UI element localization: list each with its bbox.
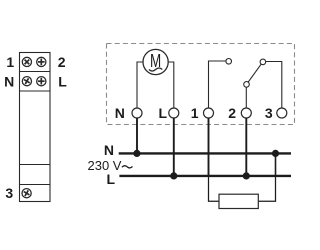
enclosure dashed box — [107, 44, 295, 125]
svg-text:L: L — [106, 171, 115, 187]
terminal N — [132, 108, 142, 118]
switch S2 lower contact — [244, 82, 250, 88]
wire N bus to load (lower) — [258, 176, 275, 201]
switch S1 wire from terminal 1 — [209, 61, 226, 108]
switch S2 wire from terminal 2 — [245, 87, 247, 108]
motor M1 — [143, 49, 168, 74]
wire terminal 1 to load (lower) — [209, 176, 220, 201]
motor wave symbol — [149, 68, 162, 71]
terminal L — [169, 108, 179, 118]
screw terminal L — [37, 77, 46, 86]
terminal 2 — [241, 108, 251, 118]
junction N bus / terminal N — [133, 150, 140, 157]
load resistor — [219, 194, 258, 208]
svg-text:3: 3 — [5, 185, 13, 201]
svg-text:L: L — [158, 105, 167, 121]
svg-text:L: L — [58, 73, 67, 89]
svg-text:N: N — [4, 73, 14, 89]
screw terminal 3 — [22, 189, 31, 198]
terminal block X1 housing — [20, 53, 51, 202]
screw terminal N — [22, 77, 31, 86]
junction N bus / load wire — [272, 150, 279, 157]
switch S2 upper contact — [260, 59, 266, 65]
wire terminal 1 to load (upper) — [208, 118, 210, 177]
screw terminal 2 — [37, 57, 46, 66]
wire N bus to load (upper) — [275, 153, 277, 177]
terminal 3 — [277, 108, 287, 118]
wire motor to terminal L — [168, 62, 174, 108]
switch S1 contact — [226, 59, 232, 65]
svg-text:3: 3 — [265, 105, 273, 121]
wire motor to terminal N — [137, 62, 143, 108]
svg-text:2: 2 — [228, 105, 236, 121]
wire contact to terminal 3 — [266, 62, 282, 109]
svg-text:2: 2 — [58, 54, 66, 70]
svg-text:1: 1 — [6, 54, 14, 70]
wire terminal L to L bus — [173, 118, 175, 176]
svg-text:230 V: 230 V — [88, 158, 122, 173]
svg-text:N: N — [115, 105, 125, 121]
screw terminal 1 — [22, 57, 31, 66]
switch S2 blade — [248, 64, 261, 82]
junction L bus / terminal 2 — [243, 172, 250, 179]
net L bus — [119, 175, 291, 177]
junction L bus / terminal L — [170, 172, 177, 179]
net N bus — [119, 152, 291, 154]
svg-text:1: 1 — [191, 105, 199, 121]
wire terminal N to N bus — [136, 118, 138, 153]
wire terminal 2 to L bus — [245, 118, 247, 176]
terminal 1 — [204, 108, 214, 118]
svg-text:N: N — [104, 142, 114, 158]
value label tilde — [122, 166, 133, 168]
